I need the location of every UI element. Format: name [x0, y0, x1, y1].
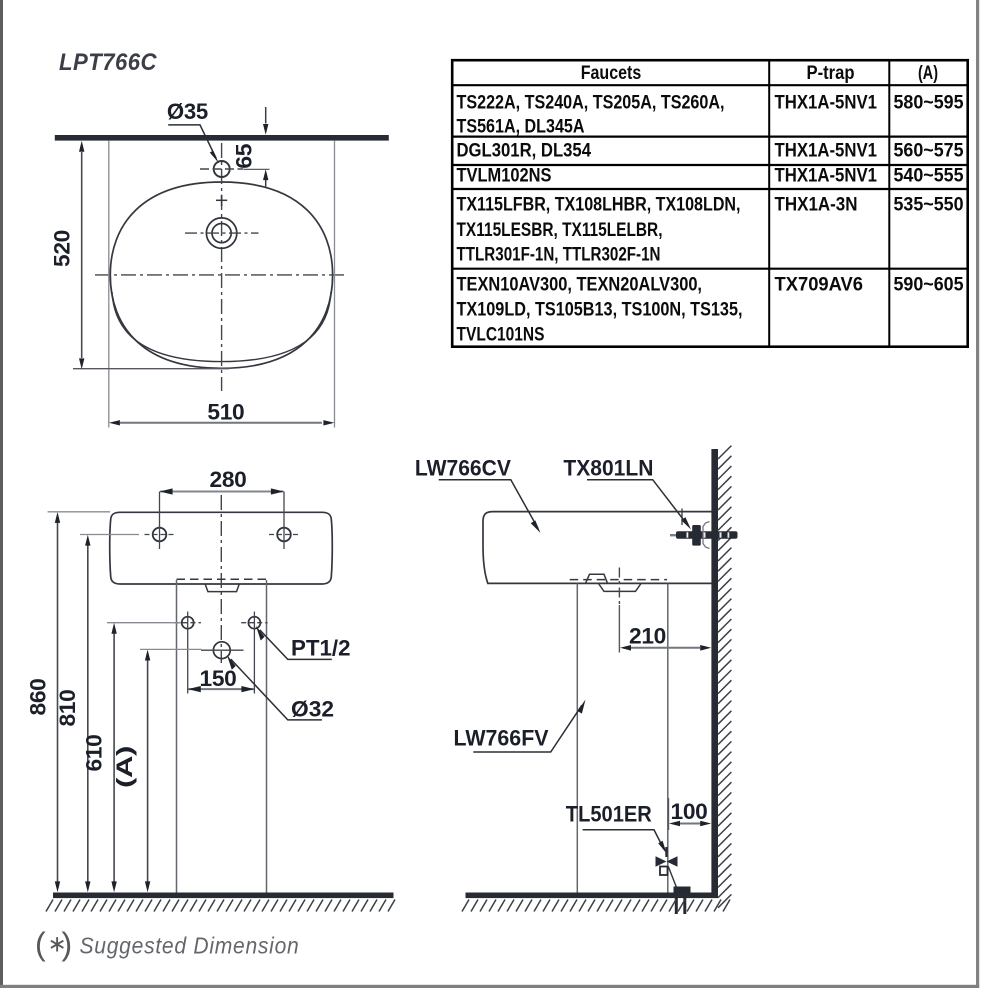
table row 1 — [457, 92, 964, 137]
svg-text:TX109LD, TS105B13, TS100N, TS1: TX109LD, TS105B13, TS100N, TS135, — [457, 300, 743, 321]
side view: drain flange — [599, 584, 642, 592]
svg-text:(: ( — [35, 926, 46, 962]
svg-text:TS222A, TS240A, TS205A, TS260A: TS222A, TS240A, TS205A, TS260A, — [457, 92, 725, 113]
plan view: basin outer rim — [110, 182, 332, 368]
svg-text:535~550: 535~550 — [894, 195, 964, 216]
front view: floor line — [53, 893, 394, 899]
svg-text:65: 65 — [232, 144, 257, 169]
plan view: basin inner rim — [112, 292, 331, 362]
wall anchor bolt TX801LN — [670, 509, 738, 549]
svg-text:TX709AV6: TX709AV6 — [775, 274, 864, 295]
table header row — [581, 63, 938, 84]
label TX801LN — [563, 455, 691, 529]
dimension 860 — [26, 512, 111, 893]
svg-text:Ø35: Ø35 — [167, 99, 208, 124]
svg-text:TTLR301F-1N, TTLR302F-1N: TTLR301F-1N, TTLR302F-1N — [457, 245, 661, 266]
page bottom border — [0, 985, 979, 988]
front view: right fixing bolt (PT1/2) — [241, 612, 267, 694]
front view: trap cover under basin — [205, 585, 239, 592]
svg-text:): ) — [62, 926, 73, 962]
svg-text:THX1A-5NV1: THX1A-5NV1 — [775, 140, 878, 161]
label diameter 35 — [167, 99, 219, 163]
front view: drain hole — [201, 642, 244, 659]
dimension (A) — [112, 649, 202, 892]
front view: right faucet bolt hole — [269, 492, 299, 550]
side view: basin profile — [483, 512, 712, 584]
svg-text:TS561A, DL345A: TS561A, DL345A — [457, 117, 585, 138]
dimension 210 — [620, 624, 711, 651]
footnote suggested dimension — [35, 926, 300, 962]
plan view: overflow cross mark — [216, 195, 227, 206]
title LPT766C — [59, 49, 157, 76]
dimension 150 — [188, 666, 255, 692]
svg-text:TL501ER: TL501ER — [566, 802, 652, 827]
side view: wall line — [711, 449, 718, 898]
plan view: vertical centerline — [221, 143, 223, 391]
label LW766FV — [454, 700, 586, 753]
page right border — [976, 0, 979, 988]
front view: pedestal right edge — [266, 580, 268, 893]
dimension 520 — [49, 141, 229, 428]
svg-text:TVLC101NS: TVLC101NS — [457, 325, 545, 346]
front view: left fixing bolt — [175, 612, 201, 694]
svg-text:TX115LESBR, TX115LELBR,: TX115LESBR, TX115LELBR, — [457, 220, 663, 241]
dimension 610 — [82, 623, 181, 893]
table row 4 — [457, 195, 964, 266]
svg-text:100: 100 — [671, 799, 708, 824]
svg-text:(A): (A) — [112, 746, 137, 788]
side view: floor hatching — [462, 900, 730, 912]
front view: left faucet bolt hole — [145, 492, 175, 550]
faucet table — [452, 60, 968, 347]
svg-text:580~595: 580~595 — [894, 92, 964, 113]
svg-text:150: 150 — [200, 666, 237, 691]
label LW766CV — [415, 455, 541, 533]
svg-text:540~555: 540~555 — [894, 166, 964, 187]
svg-text:560~575: 560~575 — [894, 140, 964, 161]
front view: pedestal left edge — [176, 580, 178, 893]
svg-text:THX1A-5NV1: THX1A-5NV1 — [775, 166, 878, 187]
svg-text:510: 510 — [207, 400, 244, 425]
svg-text:810: 810 — [55, 689, 80, 726]
dimension 510 — [109, 141, 335, 428]
stop valve TL501ER — [656, 847, 691, 914]
front view: floor hatching — [46, 900, 395, 912]
svg-text:590~605: 590~605 — [894, 274, 964, 295]
plan view: counter line — [55, 135, 389, 141]
svg-text:DGL301R, DL354: DGL301R, DL354 — [457, 140, 592, 161]
dimension 100 — [669, 798, 712, 830]
dimension 280 — [160, 467, 284, 494]
svg-text:Suggested Dimension: Suggested Dimension — [80, 933, 300, 959]
svg-text:210: 210 — [629, 624, 666, 649]
svg-text:LW766FV: LW766FV — [454, 726, 549, 751]
dimension 65 — [232, 107, 270, 188]
table row 5 — [457, 274, 964, 345]
svg-text:280: 280 — [210, 467, 247, 492]
svg-text:Ø32: Ø32 — [291, 697, 334, 722]
svg-text:Faucets: Faucets — [581, 63, 642, 84]
label TL501ER — [566, 802, 667, 854]
label PT1/2 — [256, 626, 351, 661]
side view: pedestal right edge — [667, 584, 669, 893]
svg-text:TEXN10AV300, TEXN20ALV300,: TEXN10AV300, TEXN20ALV300, — [457, 274, 703, 295]
front view: basin body — [110, 512, 333, 584]
table row 2 — [457, 140, 964, 161]
side view: pedestal left edge — [576, 584, 578, 893]
page left border — [0, 0, 3, 987]
plan view: horizontal centerline — [95, 274, 347, 276]
svg-text:LPT766C: LPT766C — [59, 49, 157, 76]
svg-text:PT1/2: PT1/2 — [291, 636, 351, 661]
front view: center dash-dot line — [220, 495, 222, 663]
side view: floor line — [466, 893, 719, 899]
side view: overflow cap — [586, 574, 608, 583]
svg-text:520: 520 — [49, 230, 74, 267]
svg-text:LW766CV: LW766CV — [415, 455, 511, 480]
svg-text:860: 860 — [26, 678, 51, 715]
plan view: faucet hole — [200, 161, 244, 177]
svg-text:P-trap: P-trap — [807, 63, 855, 84]
svg-text:610: 610 — [82, 734, 107, 771]
svg-text:THX1A-5NV1: THX1A-5NV1 — [775, 92, 878, 113]
side view: hidden pedestal top (dashed) — [570, 579, 667, 581]
front view: pedestal hidden top (dashed) — [177, 578, 267, 580]
plan view: drain double circle — [185, 218, 259, 248]
svg-text:TX115LFBR, TX108LHBR, TX108LDN: TX115LFBR, TX108LHBR, TX108LDN, — [457, 195, 741, 216]
svg-text:THX1A-3N: THX1A-3N — [775, 195, 858, 216]
svg-text:TX801LN: TX801LN — [563, 455, 653, 480]
table row 3 — [457, 166, 964, 187]
svg-text:TVLM102NS: TVLM102NS — [457, 166, 552, 187]
side view: wall hatching — [718, 446, 731, 908]
side view: drain centerline — [618, 568, 620, 653]
svg-text:(A): (A) — [918, 63, 938, 84]
label diameter 32 — [227, 655, 334, 722]
dimension 810 — [55, 535, 139, 893]
